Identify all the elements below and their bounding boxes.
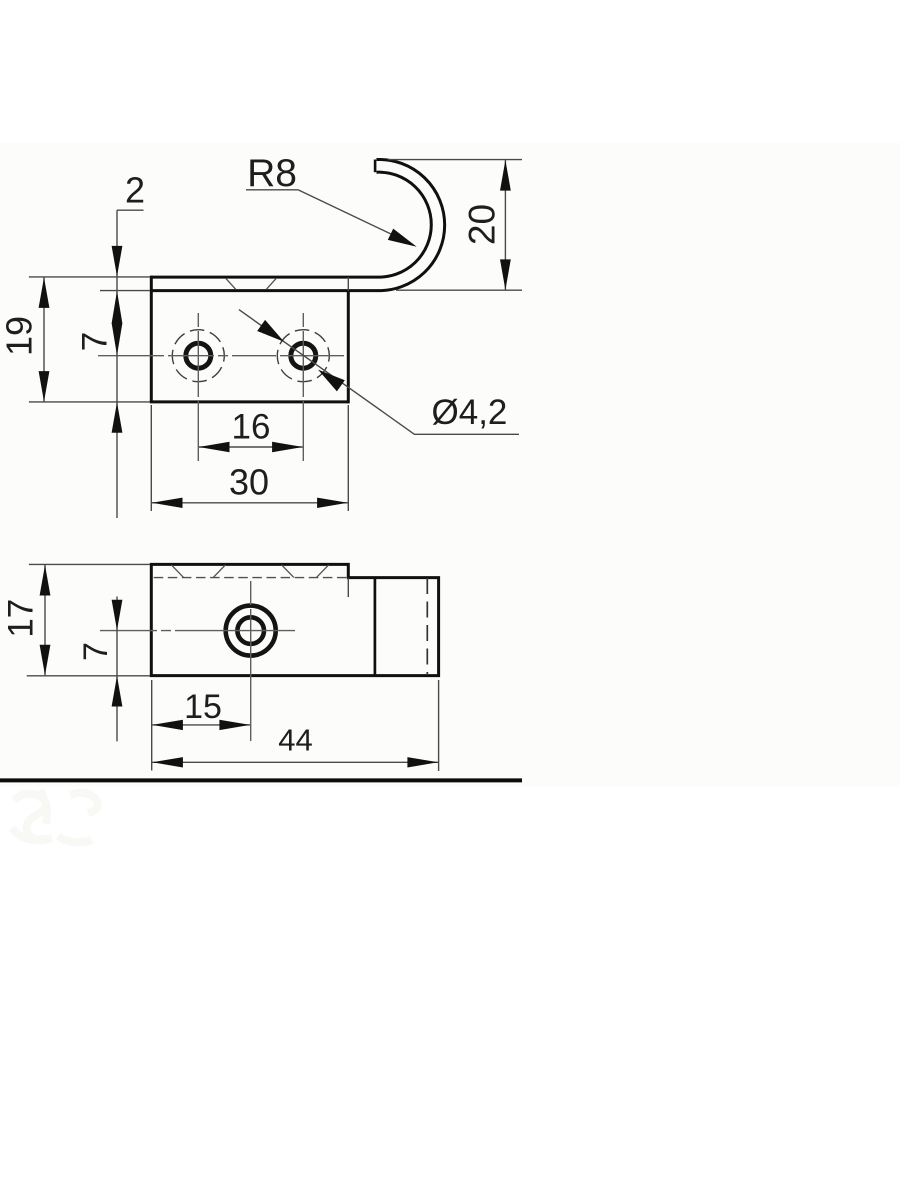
dim 7 v2: arrow down at centerline — [112, 600, 123, 631]
dim 19: dimension line — [43, 277, 45, 401]
dim 44: right extension — [438, 680, 440, 771]
dim 15: arrow left — [152, 720, 183, 730]
svg-text:19: 19 — [0, 316, 40, 356]
dim 20: bottom extension line — [396, 289, 522, 291]
step solid vertical — [374, 578, 377, 676]
dim 17: arrow up — [40, 565, 51, 596]
dim 30: arrow left — [152, 498, 183, 508]
countersink V mark — [226, 279, 276, 290]
dim Ø4,2: arrow lower — [318, 370, 345, 392]
dim 19: arrow up — [39, 277, 50, 308]
dim R8: leader line — [298, 190, 412, 244]
svg-text:7: 7 — [77, 642, 115, 661]
dim Ø4,2: arrow upper — [257, 320, 284, 342]
hook tip face — [374, 160, 377, 173]
dim 2: vertical shaft — [116, 210, 118, 518]
dim 20: arrow up — [500, 160, 511, 191]
dim R8: underline — [246, 189, 298, 191]
dim 16: arrow right — [272, 442, 303, 452]
chamfer diagonal 4 — [317, 565, 329, 578]
hole v2 outer circle — [226, 606, 276, 656]
dim 7 v1: arrow up at plate bottom — [112, 402, 123, 433]
svg-text:17: 17 — [2, 599, 41, 638]
dim 19: arrow down — [39, 371, 50, 402]
svg-text:16: 16 — [232, 408, 271, 447]
dim 16: dimension line — [199, 446, 303, 448]
dim 2: leader underline — [117, 209, 144, 211]
svg-text:44: 44 — [278, 723, 312, 758]
small tick below step — [347, 578, 349, 597]
plate left edge — [150, 276, 153, 402]
sheet bottom line + outer hook arc — [151, 159, 445, 290]
dim Ø4,2: leader diagonal — [239, 310, 519, 435]
centerline horizontal v2 — [100, 630, 298, 632]
dim 2: arrow down at sheet top — [112, 246, 123, 277]
chamfer diagonal 2 — [213, 565, 225, 578]
dim 44: dimension line — [152, 761, 438, 763]
plate right edge thick part — [347, 291, 350, 404]
paper band of pasted drawing — [0, 143, 900, 787]
dim 19: top extension line — [29, 276, 150, 278]
svg-text:30: 30 — [229, 462, 269, 503]
outline — [151, 564, 438, 675]
dim R8: arrowhead on hook — [388, 229, 417, 247]
svg-text:15: 15 — [184, 688, 222, 726]
vertical centerline left hole — [197, 313, 199, 462]
chamfer diagonal 3 — [282, 565, 294, 578]
dim 7 v2: shaft — [116, 597, 118, 742]
faint watermark remnant — [12, 790, 98, 842]
dim 20: dimension line — [504, 160, 506, 290]
hidden sheet line dashed — [154, 577, 348, 579]
hole right bold circle — [291, 343, 316, 368]
dim 15: dimension line — [152, 724, 250, 726]
dim 16: arrow left — [199, 442, 230, 452]
svg-text:Ø4,2: Ø4,2 — [432, 393, 508, 432]
dim 7 v2: arrow up at bottom edge — [112, 676, 123, 707]
dim 44: arrow left — [152, 757, 183, 767]
plate bottom edge — [150, 400, 348, 403]
chamfer diagonal 1 — [171, 565, 183, 578]
svg-text:R8: R8 — [247, 152, 297, 195]
dim 2: bottom extension line left of plate — [100, 290, 150, 292]
dim 17: arrow down — [40, 645, 51, 676]
dim 17: top extension — [29, 563, 150, 565]
dim 19: bottom extension line — [29, 401, 150, 403]
svg-text:20: 20 — [462, 204, 503, 245]
hidden dashed vertical — [426, 578, 428, 675]
dim 30: left extension — [150, 405, 152, 511]
dim 30: dimension line — [152, 502, 348, 504]
hole left bold circle — [186, 343, 211, 368]
svg-text:7: 7 — [76, 332, 115, 351]
vertical centerline right hole — [302, 313, 304, 462]
sheet top surface line + inner hook arc — [151, 172, 431, 277]
hole v2 inner circle — [237, 617, 264, 644]
centerline vertical v2 — [250, 581, 252, 741]
dim 44: arrow right — [407, 757, 438, 767]
horizontal centerline through holes — [98, 355, 344, 357]
svg-text:2: 2 — [125, 170, 145, 211]
hole right dashed circle — [269, 321, 339, 391]
dim 17: dimension line — [44, 565, 46, 675]
dim 30: right extension — [347, 405, 349, 511]
hole left dashed circle — [164, 321, 234, 391]
dim 20: arrow down — [500, 259, 511, 290]
ground/border thick line — [0, 778, 522, 782]
dim 30: arrow right — [317, 498, 348, 508]
dim 20: top extension line — [388, 159, 522, 161]
dim 15: left extension (shared with 44) — [151, 680, 153, 771]
dim 7 v1: arrow down at hole centerline — [112, 323, 123, 355]
dim 15: arrow right — [219, 720, 250, 730]
dim 2: arrow up at sheet bottom — [112, 291, 123, 324]
dim 17: bottom extension — [27, 675, 150, 677]
plate right edge thin upper part — [347, 277, 349, 291]
